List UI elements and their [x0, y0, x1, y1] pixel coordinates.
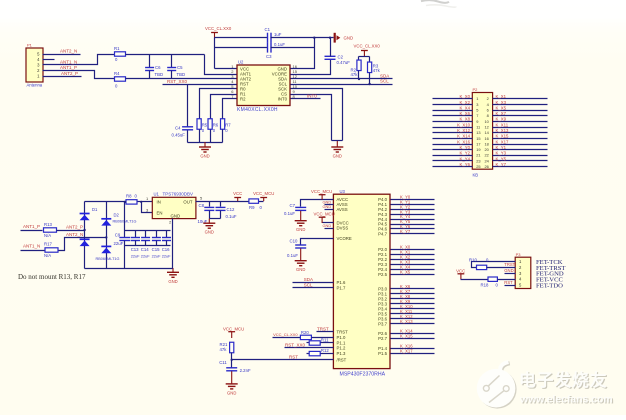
svg-text:22uF: 22uF [131, 254, 140, 259]
wire C6 bottom stub [149, 71, 151, 79]
wire wire VCC_CL to R20 [273, 337, 301, 339]
wire R3 top [369, 57, 371, 63]
wire P2 left K_Y2 [433, 155, 473, 157]
svg-text:22uF: 22uF [152, 254, 161, 259]
wire wire U2 pin7 to R7 [223, 99, 237, 119]
svg-text:EN: EN [157, 211, 163, 216]
svg-text:VCC_MCU: VCC_MCU [223, 326, 244, 331]
svg-text:19: 19 [476, 147, 480, 152]
wire R21 bottom [231, 353, 233, 368]
wire wire R1 to U2 pin2 a [126, 54, 205, 56]
svg-text:U2: U2 [238, 60, 244, 65]
wire C12 top stub [220, 202, 222, 207]
wire wire P3 pin5 stub [505, 285, 516, 287]
capacitor C14 [141, 238, 150, 253]
power VCC [233, 191, 242, 201]
svg-text:P4.7: P4.7 [378, 232, 387, 237]
svg-text:R10: R10 [469, 258, 477, 263]
svg-text:K_X5: K_X5 [496, 105, 507, 110]
wire wire U2 pin6 to R6 [211, 95, 237, 119]
ground G5 [295, 211, 307, 232]
wire C16 bottom stub [166, 241, 168, 246]
svg-text:K_X11: K_X11 [496, 122, 509, 127]
wire P1 pin3 ANT1_N [43, 55, 115, 65]
svg-text:0.1uF: 0.1uF [274, 42, 285, 47]
svg-text:www.elecfans.com: www.elecfans.com [519, 395, 613, 406]
svg-text:GND: GND [200, 154, 209, 159]
capacitor C6 [145, 65, 163, 77]
resistor R10 [469, 258, 489, 270]
svg-text:MSP430F2370RHA: MSP430F2370RHA [340, 371, 386, 377]
svg-text:K_X6: K_X6 [459, 111, 470, 116]
power VCC_MCU out [253, 191, 274, 201]
wire wire U2 pin5 to R5 [200, 89, 237, 119]
svg-text:K_X10: K_X10 [457, 122, 471, 127]
wire U3 K_X13 [391, 323, 435, 325]
svg-text:1uF: 1uF [274, 32, 282, 37]
diode D2b [96, 246, 120, 260]
wire U3 K_X17 [391, 353, 435, 355]
svg-text:D1: D1 [92, 207, 98, 212]
wire wire U2 pin9 CS down [291, 95, 332, 141]
wire gnd rail below C4 [188, 142, 223, 144]
svg-text:P1.3: P1.3 [337, 351, 346, 356]
svg-text:GND: GND [344, 36, 354, 41]
svg-text:K_X17: K_X17 [400, 348, 413, 353]
svg-text:47k: 47k [351, 72, 359, 77]
capacitor C1 [265, 27, 282, 43]
svg-text:R5: R5 [202, 123, 208, 128]
wire P2 right K_Y1 [493, 149, 548, 151]
wire C15 bottom stub [156, 241, 158, 246]
resistor R2 [351, 60, 362, 77]
wire AVSS2 stub [325, 209, 334, 211]
wire C15 top stub [156, 231, 158, 238]
svg-text:0.1uF: 0.1uF [284, 211, 295, 216]
svg-text:RST_XX0: RST_XX0 [285, 343, 306, 348]
wire C8 top stub [209, 202, 211, 207]
regulator U1 TPS76930DBV [152, 192, 196, 219]
svg-text:VCC_CL.XX0: VCC_CL.XX0 [205, 26, 232, 31]
svg-text:VCC_MCU: VCC_MCU [253, 191, 274, 196]
svg-text:GND: GND [296, 267, 305, 272]
node junction bridge left [83, 229, 85, 231]
svg-text:P1.6: P1.6 [337, 280, 346, 285]
svg-text:SDA: SDA [304, 277, 313, 282]
resistor R20 [300, 330, 311, 340]
wire P2 left K_X6 [433, 115, 473, 117]
wire wire R12 to P1.3 [321, 353, 334, 355]
power VCC_CL.XX0 right [354, 44, 381, 57]
wire P1 pin4 stub [43, 59, 55, 61]
svg-text:GND: GND [227, 390, 236, 395]
capacitor C10 [287, 239, 306, 259]
svg-text:3: 3 [476, 102, 478, 107]
wire U3 K_X6 [391, 288, 435, 290]
svg-text:C3: C3 [266, 54, 272, 59]
svg-text:VCC_MCU: VCC_MCU [311, 189, 332, 194]
ground G7 [226, 371, 238, 395]
wire DVSS stub [325, 228, 334, 230]
svg-text:C10: C10 [290, 239, 298, 244]
resistor R7 [221, 119, 232, 133]
wire R3 bottom to SCL [369, 73, 371, 85]
svg-text:0.1uF: 0.1uF [287, 253, 298, 258]
resistor R6 [208, 119, 219, 133]
wire bridge top wire [85, 201, 127, 203]
svg-text:22: 22 [484, 153, 488, 158]
wire C5 bottom stub [171, 71, 173, 79]
wire P2 right K_X7 [493, 115, 548, 117]
capacitor C15 [152, 238, 161, 253]
wire R2 bottom to SDA [358, 71, 360, 79]
wire P2 left K_Y0 [433, 149, 473, 151]
ground G4 [203, 219, 215, 235]
capacitor C16 [162, 238, 171, 253]
svg-text:KM40XCL.XX0H: KM40XCL.XX0H [237, 107, 278, 113]
wire P2 right K_Y5 [493, 160, 548, 162]
svg-text:C7: C7 [290, 203, 296, 208]
svg-text:Antenna: Antenna [27, 83, 43, 88]
wire U3 K_Y0 [391, 199, 435, 201]
ground G1 [199, 142, 211, 159]
capacitor C8 [198, 203, 215, 224]
svg-text:INT0: INT0 [307, 94, 317, 99]
wire U3 K_X3 [391, 264, 435, 266]
node junction RST [231, 359, 233, 361]
svg-text:22uF: 22uF [162, 254, 171, 259]
wire U3 K_Y6 [391, 228, 435, 230]
wire U3 K_Y4 [391, 219, 435, 221]
svg-text:C6: C6 [155, 65, 161, 70]
U3 right pin names [378, 197, 387, 356]
svg-text:P1: P1 [27, 43, 33, 48]
svg-text:13: 13 [476, 130, 480, 135]
wire P2 right K_Y3 [493, 155, 548, 157]
wire wire P3 pin3 stub [505, 273, 516, 275]
svg-text:K_X13: K_X13 [496, 128, 510, 133]
wire C8 bottom [209, 211, 211, 219]
wire wire U2 pin16 GND up [291, 38, 315, 69]
node junction R8 feed [124, 201, 126, 203]
svg-text:VCC: VCC [456, 268, 465, 273]
wire wire R11 to P1.1 [321, 342, 334, 344]
svg-text:K_X1: K_X1 [496, 94, 507, 99]
svg-text:K_X2: K_X2 [459, 100, 470, 105]
svg-text:GND: GND [323, 204, 332, 209]
svg-text:7: 7 [476, 113, 478, 118]
wire wire SCL mcu [293, 287, 334, 289]
wire U3 K_X15 [391, 338, 435, 340]
wire U3 K_X8 [391, 298, 435, 300]
node junction IN/EN [140, 201, 142, 203]
svg-text:K_Y0: K_Y0 [459, 145, 470, 150]
svg-text:ANT1_N: ANT1_N [23, 243, 40, 248]
wire P1 pin5 ANT2_N [43, 54, 81, 56]
svg-text:R1: R1 [114, 46, 120, 51]
svg-text:ANT2_N: ANT2_N [66, 232, 83, 237]
wire wire R11 left [307, 342, 310, 344]
svg-text:K_Y4: K_Y4 [459, 156, 470, 161]
wire U3 K_X12 [391, 318, 435, 320]
svg-text:VCC_MCU: VCC_MCU [314, 212, 335, 217]
svg-text:K_X15: K_X15 [496, 134, 510, 139]
svg-text:DVSS: DVSS [337, 226, 349, 231]
svg-text:K_Y2: K_Y2 [459, 151, 470, 156]
wire wire SCL [291, 84, 393, 86]
wire wire ANT1_P in [21, 230, 43, 232]
svg-text:R9: R9 [249, 205, 255, 210]
wire C6 top stub [149, 55, 151, 68]
resistor R21 [220, 342, 234, 353]
resistor R1 [114, 46, 126, 62]
wire P2 right K_X5 [493, 110, 548, 112]
wire C13 bottom stub [135, 241, 137, 246]
top watermark remnant [421, 0, 456, 7]
wire wire VCC to U2 pin1 [215, 68, 237, 70]
node junction pin16 rail [313, 37, 315, 39]
wire wire RST_XX0 to U2 pin4 [163, 84, 237, 86]
svg-text:K_X5: K_X5 [400, 269, 411, 274]
svg-text:16: 16 [484, 136, 488, 141]
svg-text:6: 6 [487, 108, 489, 113]
svg-text:C8: C8 [199, 203, 205, 208]
wire R2 top [358, 57, 360, 61]
wire wire U2 pin10 SCK down [291, 89, 343, 141]
wire wire P3 pin1 [472, 262, 516, 268]
power VCC_MCU dvcc [314, 212, 335, 223]
wire P2 left K_X12 [433, 132, 473, 134]
wire pullup tie [359, 56, 370, 58]
resistor R18 [481, 277, 499, 287]
resistor R17 [44, 241, 58, 258]
wire U3 K_Y1 [391, 204, 435, 206]
svg-text:SCL: SCL [380, 79, 389, 84]
svg-text:P1.0: P1.0 [337, 335, 346, 340]
power GND port top [335, 33, 353, 43]
wire U3 K_X11 [391, 313, 435, 315]
capacitor C12 [216, 207, 237, 219]
op-amp U2 KM40XCL [231, 60, 297, 113]
svg-text:电子发烧友: 电子发烧友 [519, 370, 607, 390]
svg-text:ANT2_P: ANT2_P [66, 225, 83, 230]
wire P2 right K_X1 [493, 98, 548, 100]
wire wire R1 to U2 pin2 b [205, 55, 237, 75]
wire cap rail top [125, 230, 171, 232]
svg-text:K_Y5: K_Y5 [496, 156, 507, 161]
wire wire ANT1_N in [21, 250, 45, 252]
svg-text:0.47uF: 0.47uF [337, 60, 351, 65]
svg-text:K_X17: K_X17 [496, 139, 510, 144]
wire P2 left K_X2 [433, 104, 473, 106]
wire wire VCC to R18 [461, 279, 489, 281]
svg-text:2.2nF: 2.2nF [240, 368, 251, 373]
svg-text:K_Y1: K_Y1 [496, 145, 507, 150]
wire DVCC wire [323, 222, 334, 224]
wire U3 K_Y3 [391, 214, 435, 216]
svg-text:C11: C11 [219, 360, 227, 365]
svg-text:26: 26 [484, 164, 488, 169]
wire C14 top stub [145, 231, 147, 238]
svg-text:22uF: 22uF [114, 241, 124, 246]
svg-text:ANT1_P: ANT1_P [60, 65, 77, 70]
wire wire R17 jog [59, 238, 107, 251]
svg-text:P3: P3 [516, 252, 522, 257]
svg-text:VCC_CL.XX0: VCC_CL.XX0 [273, 332, 298, 337]
capacitor C7 [284, 203, 306, 216]
svg-text:1: 1 [476, 96, 478, 101]
wire wire RST to C4 [187, 85, 189, 127]
capacitor C5 [167, 65, 185, 77]
svg-text:R11: R11 [321, 338, 329, 343]
resistor R3 [368, 62, 381, 73]
diode D1a [80, 207, 98, 221]
wire wire R18 to P3 pin4 [498, 279, 516, 281]
svg-text:TBD: TBD [177, 72, 186, 77]
svg-text:GND: GND [171, 214, 181, 219]
U3 left pin names [337, 197, 352, 362]
wire U3 K_X0 [391, 249, 435, 251]
wire wire SDA mcu [293, 282, 334, 284]
wire U3 K_Y2 [391, 209, 435, 211]
svg-text:TPS76930DBV: TPS76930DBV [163, 192, 194, 197]
svg-text:P1.2: P1.2 [337, 345, 346, 350]
svg-text:5: 5 [476, 108, 478, 113]
ground G3 [167, 268, 179, 284]
svg-text:C14: C14 [141, 247, 149, 252]
capacitor C11 [219, 360, 251, 373]
wire R5 bottom [199, 130, 201, 143]
ground G2 [331, 141, 343, 159]
wire AVSS1 stub [325, 204, 334, 206]
svg-text:9: 9 [476, 119, 478, 124]
wire wire R13 to rail [57, 230, 85, 232]
svg-text:SCL: SCL [304, 282, 313, 287]
svg-text:47k: 47k [373, 68, 381, 73]
svg-text:RST_XX0: RST_XX0 [167, 79, 188, 84]
svg-text:U3: U3 [340, 189, 346, 194]
wire U3 K_X1 [391, 254, 435, 256]
wire P2 right K_X13 [493, 132, 548, 134]
svg-text:R13: R13 [44, 222, 52, 227]
svg-text:N/A: N/A [44, 253, 51, 258]
svg-text:ANT1_P: ANT1_P [23, 224, 40, 229]
wire U3 K_X14 [391, 333, 435, 335]
svg-text:K_X0: K_X0 [459, 94, 470, 99]
svg-text:R8: R8 [126, 194, 132, 199]
wire U3 K_X7 [391, 293, 435, 295]
wire P2 right K_X9 [493, 121, 548, 123]
svg-text:TRST: TRST [504, 262, 515, 267]
wire P1 pin1 ANT2_P [43, 76, 82, 78]
wire wire AVCC [301, 200, 334, 207]
svg-text:P3.7: P3.7 [378, 321, 387, 326]
svg-text:GND: GND [296, 227, 305, 232]
svg-text:15: 15 [476, 136, 480, 141]
wire C4 bottom [187, 131, 189, 143]
svg-text:2: 2 [487, 96, 489, 101]
resistor R5 [197, 119, 208, 133]
wire P2 left K_X14 [433, 138, 473, 140]
svg-text:D2: D2 [114, 213, 120, 218]
wire P2 left K_Y4 [433, 160, 473, 162]
svg-text:C16: C16 [162, 247, 170, 252]
svg-text:VCC: VCC [233, 191, 242, 196]
svg-text:R12: R12 [321, 348, 329, 353]
wire P2 left K_X8 [433, 121, 473, 123]
svg-text:/RST: /RST [337, 357, 347, 362]
wire U3 K_X9 [391, 303, 435, 305]
svg-text:GND: GND [504, 268, 513, 273]
wire top rail right [271, 37, 334, 39]
svg-text:C2: C2 [338, 54, 344, 59]
svg-text:K_X16: K_X16 [457, 139, 471, 144]
svg-text:P1.7: P1.7 [337, 285, 346, 290]
node junction bridge right [105, 236, 107, 238]
wire wire R12 left [307, 353, 310, 355]
svg-text:R20: R20 [301, 330, 309, 335]
svg-text:K_X13: K_X13 [400, 319, 413, 324]
wire C12 bottom [220, 211, 222, 219]
svg-text:Do not mount R13, R17: Do not mount R13, R17 [18, 273, 86, 281]
wire C9 bottom vertical [124, 241, 126, 269]
wire U3 K_Y5 [391, 224, 435, 226]
svg-text:VCORE: VCORE [337, 236, 352, 241]
svg-text:U1: U1 [154, 192, 160, 197]
svg-text:P1.5: P1.5 [378, 351, 387, 356]
wire top rail left [215, 37, 268, 39]
wire bridge right rail [106, 202, 108, 269]
svg-text:C15: C15 [152, 247, 160, 252]
wire P2 left K_Y6 [433, 166, 473, 168]
power VCC fet [456, 268, 465, 279]
svg-text:C13: C13 [131, 247, 139, 252]
resistor R4 [114, 71, 126, 89]
svg-text:K_Y7: K_Y7 [400, 229, 411, 234]
svg-text:ANT2_N: ANT2_N [60, 48, 77, 53]
resistor R9 [249, 199, 263, 210]
wire cap gnd tie [210, 218, 221, 220]
wire cap rail bottom [125, 245, 171, 247]
wire P2 left K_X4 [433, 110, 473, 112]
svg-text:K_X14: K_X14 [457, 134, 471, 139]
svg-text:47k: 47k [220, 347, 228, 352]
wire bridge bottom rail [85, 268, 173, 270]
svg-text:TRST: TRST [317, 326, 329, 331]
wire P2 left K_X10 [433, 127, 473, 129]
resistor R11 [309, 338, 329, 346]
svg-text:C5: C5 [177, 65, 183, 70]
wire U3 K_X10 [391, 308, 435, 310]
wire gnd tie [332, 140, 343, 142]
svg-text:0.45uF: 0.45uF [172, 133, 186, 138]
svg-text:C4: C4 [175, 125, 181, 130]
wire C14 bottom stub [145, 241, 147, 246]
capacitor C13 [131, 238, 140, 253]
wire P2 left K_X16 [433, 144, 473, 146]
wire wire U2 pin15 VCORE [291, 60, 331, 75]
wire P2 right K_X17 [493, 144, 548, 146]
diode D2a [101, 213, 136, 226]
svg-text:0.1uF: 0.1uF [226, 214, 237, 219]
svg-text:K_Y3: K_Y3 [496, 151, 507, 156]
svg-text:P2.5: P2.5 [378, 272, 387, 277]
svg-text:P2.7: P2.7 [378, 336, 387, 341]
svg-text:GND: GND [323, 223, 332, 228]
capacitor C2 [325, 54, 351, 65]
svg-text:R6: R6 [213, 123, 219, 128]
svg-text:AVSS: AVSS [337, 207, 348, 212]
